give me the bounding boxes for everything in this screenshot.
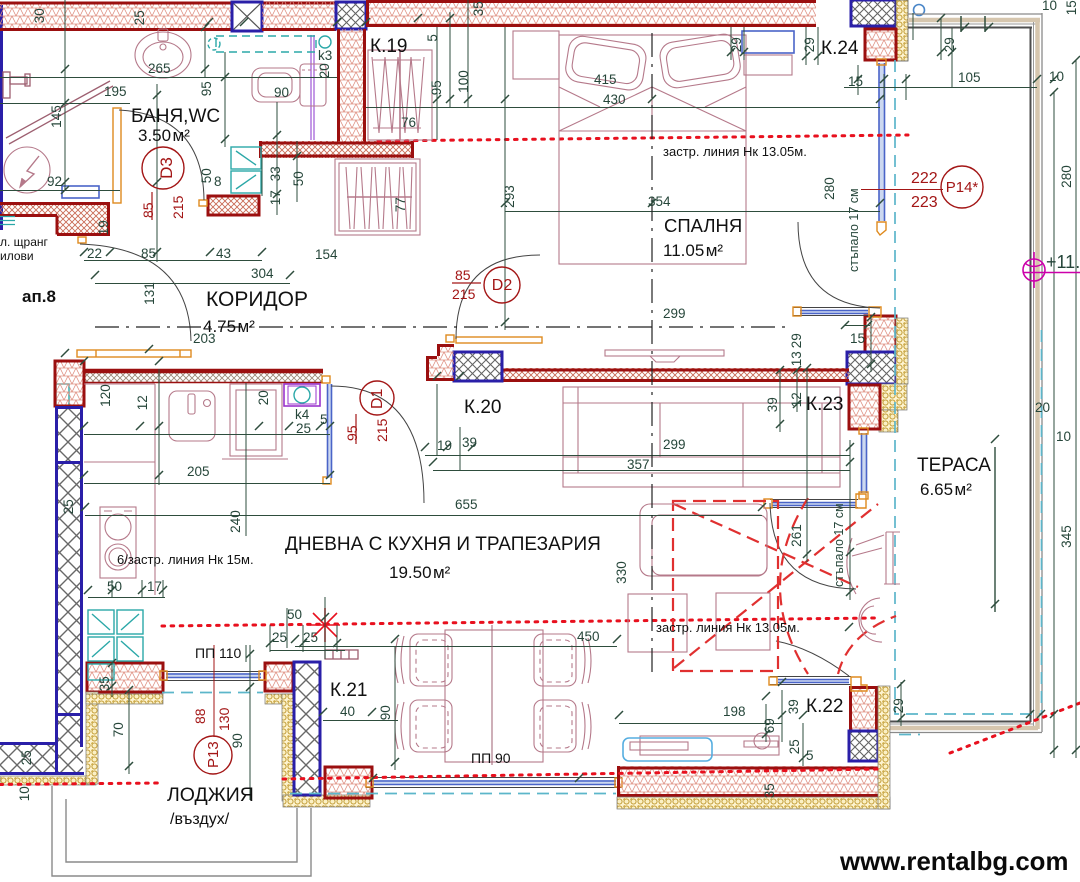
svg-text:33: 33 bbox=[268, 166, 283, 181]
bathroom diagonal partition bbox=[6, 81, 113, 144]
svg-text:90: 90 bbox=[274, 85, 289, 100]
chair bottom-right bbox=[534, 700, 591, 752]
svg-text:15: 15 bbox=[850, 331, 865, 346]
K23 cluster: upper wall block bbox=[865, 316, 896, 352]
svg-text:ДНЕВНА С КУХНЯ И ТРАПЕЗАРИЯ: ДНЕВНА С КУХНЯ И ТРАПЕЗАРИЯ bbox=[285, 534, 601, 555]
left exterior wall (navy w/ crosshatch) bbox=[0, 406, 84, 774]
wall block left end kitchen bbox=[55, 361, 84, 406]
corridor axis dash-dot bbox=[95, 326, 790, 328]
svg-text:D1: D1 bbox=[369, 388, 386, 409]
svg-text:95: 95 bbox=[344, 425, 360, 441]
left shaft navy edge line bbox=[0, 5, 3, 230]
exterior top wall band (bedroom) bbox=[366, 0, 816, 27]
svg-text:ап.8: ап.8 bbox=[22, 287, 56, 306]
svg-text:100: 100 bbox=[456, 70, 471, 93]
side table 2 bbox=[716, 593, 770, 650]
svg-text:+11.: +11. bbox=[1046, 252, 1080, 272]
door circle P14 bbox=[911, 166, 983, 211]
column K top-left (navy X box) bbox=[232, 2, 262, 31]
south window living room bbox=[366, 778, 622, 788]
svg-text:20: 20 bbox=[317, 63, 332, 78]
svg-text:К.19: К.19 bbox=[370, 36, 407, 57]
svg-text:215: 215 bbox=[374, 418, 390, 442]
corridor wardrobe shelf (orange) bbox=[77, 350, 191, 357]
cyan dashed terrace right bbox=[1041, 330, 1043, 714]
kitchen sink 173 bbox=[169, 391, 215, 441]
svg-text:k4: k4 bbox=[295, 407, 310, 422]
red building line (bottom right diagonal) bbox=[950, 703, 1080, 753]
svg-text:40: 40 bbox=[340, 704, 355, 719]
svg-text:19: 19 bbox=[437, 438, 452, 453]
D2 swing arc bbox=[456, 255, 540, 339]
svg-text:35: 35 bbox=[97, 676, 112, 691]
svg-text:10: 10 bbox=[1042, 0, 1057, 13]
cyan dashed bits right of K22 bbox=[690, 486, 920, 735]
svg-text:25: 25 bbox=[303, 630, 318, 645]
svg-text:15: 15 bbox=[848, 74, 863, 89]
svg-text:50: 50 bbox=[199, 168, 214, 183]
svg-text:илови: илови bbox=[0, 249, 34, 263]
svg-text:k3: k3 bbox=[318, 48, 332, 63]
D1 swing arc bbox=[331, 386, 424, 503]
svg-text:198: 198 bbox=[723, 704, 746, 719]
corridor wall step block (right of entrance) bbox=[208, 196, 259, 215]
insulation under SE wall bbox=[617, 797, 890, 809]
D3 door leaf bbox=[113, 108, 121, 203]
svg-text:/въздух/: /въздух/ bbox=[170, 811, 230, 828]
svg-text:655: 655 bbox=[455, 497, 478, 512]
svg-text:25: 25 bbox=[61, 499, 76, 514]
svg-text:330: 330 bbox=[614, 561, 629, 584]
svg-text:85: 85 bbox=[455, 267, 471, 283]
svg-text:20: 20 bbox=[1035, 400, 1050, 415]
svg-text:304: 304 bbox=[251, 266, 274, 281]
svg-text:13: 13 bbox=[789, 351, 804, 366]
svg-text:30: 30 bbox=[32, 8, 47, 23]
svg-text:354: 354 bbox=[648, 194, 671, 209]
svg-text:357: 357 bbox=[627, 457, 650, 472]
svg-text:240: 240 bbox=[228, 510, 243, 533]
loggia top-left wall block bbox=[87, 663, 163, 692]
D1 door jamb top bbox=[322, 376, 330, 383]
svg-text:450: 450 bbox=[577, 629, 600, 644]
svg-text:8: 8 bbox=[214, 174, 222, 189]
svg-text:35: 35 bbox=[471, 1, 486, 16]
stove bbox=[100, 507, 136, 578]
svg-text:261: 261 bbox=[789, 524, 804, 547]
entrance wall left (bathroom south) bbox=[0, 202, 110, 236]
svg-text:88: 88 bbox=[192, 708, 208, 724]
exterior top wall band (bathroom) bbox=[0, 2, 336, 31]
svg-text:БАНЯ,WC: БАНЯ,WC bbox=[131, 106, 220, 127]
door circle D3 bbox=[140, 147, 186, 220]
fridge bbox=[222, 384, 288, 459]
svg-text:КОРИДОР: КОРИДОР bbox=[206, 288, 308, 311]
svg-text:6.65 м²: 6.65 м² bbox=[920, 480, 972, 499]
wall under toilet room (bath-corridor) bbox=[259, 141, 414, 158]
svg-text:223: 223 bbox=[911, 194, 938, 211]
bedroom south wall band (sofa wall) bbox=[502, 368, 849, 382]
svg-text:20: 20 bbox=[256, 390, 271, 405]
toilet bbox=[252, 64, 326, 106]
svg-text:50: 50 bbox=[291, 171, 306, 186]
svg-text:25: 25 bbox=[19, 750, 34, 765]
svg-text:195: 195 bbox=[104, 84, 127, 99]
svg-text:К.24: К.24 bbox=[821, 38, 859, 59]
svg-text:215: 215 bbox=[170, 195, 186, 219]
K23 lower wall block bbox=[849, 385, 880, 429]
magenta level mark bbox=[1023, 252, 1080, 288]
column K21 (navy crosshatch) bbox=[294, 662, 320, 795]
loggia parapet outline bbox=[52, 786, 311, 876]
svg-text:120: 120 bbox=[98, 384, 113, 407]
window PP110 (loggia) bbox=[160, 671, 266, 681]
k4 sink box (purple) bbox=[284, 384, 320, 406]
K19 wardrobe with hangers bbox=[368, 50, 432, 140]
svg-text:203: 203 bbox=[193, 331, 216, 346]
svg-text:застр. линия Нк 13.05м.: застр. линия Нк 13.05м. bbox=[663, 144, 807, 159]
D3 door jamb orange bbox=[199, 200, 207, 206]
insulation strip right of K24 bbox=[896, 0, 908, 61]
K22 wall column bbox=[849, 686, 878, 731]
svg-text:К.23: К.23 bbox=[806, 394, 843, 415]
svg-text:3.50 м²: 3.50 м² bbox=[138, 126, 190, 145]
door circle D1 bbox=[344, 381, 394, 444]
svg-text:95: 95 bbox=[199, 81, 214, 96]
chair top-left bbox=[395, 634, 452, 686]
door circle P13 bbox=[192, 707, 232, 774]
side table 1 bbox=[628, 594, 687, 652]
svg-text:215: 215 bbox=[452, 286, 476, 302]
svg-text:19: 19 bbox=[96, 220, 111, 235]
blue bench bathroom bbox=[62, 186, 99, 198]
entrance door jamb piece bbox=[78, 237, 86, 243]
terrace chair / plant bbox=[847, 532, 900, 642]
svg-text:6/застр. линия Нк 15м.: 6/застр. линия Нк 15м. bbox=[117, 552, 254, 567]
chair bottom-left bbox=[395, 700, 452, 752]
svg-text:265: 265 bbox=[148, 61, 171, 76]
column K24 (navy crosshatch box) bbox=[851, 0, 896, 26]
lower closet with slats bbox=[335, 159, 420, 235]
living-terrace door (horizontal) bbox=[764, 494, 866, 508]
svg-text:5: 5 bbox=[320, 412, 328, 427]
svg-text:29: 29 bbox=[729, 37, 744, 52]
svg-text:D3: D3 bbox=[157, 157, 176, 179]
cyan dashed line terrace (L-shape) bbox=[895, 60, 1041, 714]
cyan cabinet (toilet room) bbox=[231, 147, 261, 193]
insulation under left wall corner bbox=[0, 776, 96, 785]
svg-text:90: 90 bbox=[230, 733, 245, 748]
small cyan circle terrace top bbox=[914, 5, 925, 16]
svg-text:70: 70 bbox=[111, 722, 126, 737]
svg-text:www.rentalbg.com: www.rentalbg.com bbox=[839, 848, 1068, 876]
svg-text:10: 10 bbox=[17, 786, 32, 801]
K22 east insulation bbox=[878, 686, 890, 809]
svg-text:415: 415 bbox=[594, 72, 617, 87]
svg-text:К.22: К.22 bbox=[806, 696, 843, 717]
svg-text:стъпало 17 см: стъпало 17 см bbox=[832, 503, 846, 587]
svg-text:К.20: К.20 bbox=[464, 397, 501, 418]
svg-text:29: 29 bbox=[942, 37, 957, 52]
svg-text:29: 29 bbox=[789, 333, 804, 348]
dining table bbox=[445, 630, 543, 762]
nightstand left bbox=[513, 31, 559, 79]
terrace outer wall (bottom) bbox=[890, 722, 1042, 733]
chair top-right bbox=[534, 634, 591, 686]
svg-text:222: 222 bbox=[911, 170, 938, 187]
terrace outer wall (right) bbox=[1031, 13, 1043, 732]
K20 navy box bbox=[454, 352, 502, 381]
D1 door jamb bottom bbox=[323, 477, 331, 484]
svg-text:131: 131 bbox=[142, 282, 157, 305]
svg-text:11.05 м²: 11.05 м² bbox=[663, 241, 723, 260]
vent grille strip near K21 bbox=[325, 650, 358, 659]
svg-text:P14*: P14* bbox=[946, 179, 979, 196]
svg-text:СПАЛНЯ: СПАЛНЯ bbox=[664, 215, 742, 236]
svg-text:293: 293 bbox=[502, 185, 517, 208]
purple shower partition (toilet) bbox=[311, 35, 314, 140]
svg-text:69: 69 bbox=[762, 718, 777, 733]
bedroom terrace door swing arc bbox=[798, 222, 880, 308]
svg-text:12: 12 bbox=[135, 395, 150, 410]
wall block right of K21 bbox=[325, 767, 372, 798]
svg-text:ПП 90: ПП 90 bbox=[471, 750, 511, 766]
svg-text:90: 90 bbox=[378, 705, 393, 720]
svg-text:29: 29 bbox=[891, 698, 906, 713]
TV on bedroom wall bbox=[605, 350, 724, 362]
window right of sofa wall (vertical) bbox=[859, 428, 868, 499]
bedroom/living axis dash-dot vertical bbox=[651, 33, 653, 678]
bedroom west wall step blocks bbox=[426, 344, 454, 381]
svg-text:ТЕРАСА: ТЕРАСА bbox=[917, 455, 991, 476]
svg-text:280: 280 bbox=[1059, 165, 1074, 188]
wall between toilet and K19 (hatched) bbox=[337, 29, 366, 142]
SE window swing arc bbox=[776, 641, 849, 676]
svg-text:стъпало 17 см: стъпало 17 см bbox=[847, 188, 861, 272]
svg-text:105: 105 bbox=[958, 70, 981, 85]
svg-text:л. щранг: л. щранг bbox=[0, 235, 49, 249]
D1 door leaf (blue) bbox=[327, 384, 332, 478]
door circle D2 bbox=[452, 267, 520, 303]
living terrace door swing arc bbox=[770, 503, 856, 589]
svg-text:280: 280 bbox=[822, 177, 837, 200]
terrace outer wall (top) bbox=[908, 14, 1042, 28]
svg-text:19.50 м²: 19.50 м² bbox=[389, 563, 451, 582]
svg-text:5: 5 bbox=[425, 34, 440, 42]
svg-text:25: 25 bbox=[787, 739, 802, 754]
svg-text:25: 25 bbox=[272, 630, 287, 645]
red dashed armchair square bbox=[673, 501, 778, 671]
cyan dashed sill under south window bbox=[290, 793, 616, 795]
K23 navy box bbox=[847, 352, 896, 384]
svg-text:12: 12 bbox=[789, 392, 804, 407]
svg-text:205: 205 bbox=[187, 464, 210, 479]
svg-text:25: 25 bbox=[132, 10, 147, 25]
red dashed swing arc (project door) bbox=[780, 498, 808, 674]
svg-text:P13: P13 bbox=[205, 741, 222, 768]
svg-text:D2: D2 bbox=[492, 277, 513, 294]
D2 door leaf bbox=[456, 337, 542, 343]
svg-text:154: 154 bbox=[315, 247, 338, 262]
D2 door jamb bbox=[446, 335, 454, 342]
D3 swing arc bbox=[119, 110, 204, 200]
K23 insulation strips bbox=[879, 318, 908, 432]
sofa bbox=[563, 387, 840, 487]
red building line (bedroom) bbox=[378, 135, 908, 141]
svg-text:43: 43 bbox=[216, 246, 231, 261]
cyan dashed sill under PP110 bbox=[162, 692, 263, 694]
svg-text:430: 430 bbox=[603, 92, 626, 107]
shower symbol circle with arrow bbox=[4, 147, 50, 193]
svg-text:5: 5 bbox=[806, 748, 814, 763]
bedroom terrace window/door (east) bbox=[877, 59, 886, 235]
red star marker (as-built point) bbox=[310, 608, 340, 642]
red dashed small arc near SE window bbox=[838, 616, 896, 674]
nightstand right (blue) bbox=[742, 31, 794, 75]
red dashed diagonals bbox=[674, 504, 878, 668]
bedroom SE window (horizontal) bbox=[793, 307, 881, 317]
svg-text:299: 299 bbox=[663, 306, 686, 321]
svg-text:145: 145 bbox=[49, 105, 64, 128]
svg-text:25: 25 bbox=[296, 421, 311, 436]
svg-text:17: 17 bbox=[147, 579, 162, 594]
red building line (living) bbox=[162, 618, 875, 626]
svg-text:50: 50 bbox=[107, 579, 122, 594]
svg-text:39: 39 bbox=[462, 435, 477, 450]
svg-text:77: 77 bbox=[393, 197, 408, 212]
top wall band over toilet bbox=[262, 2, 336, 31]
svg-text:85: 85 bbox=[140, 202, 156, 218]
armchair chaise bbox=[640, 504, 767, 576]
bed bbox=[559, 32, 746, 264]
svg-text:39: 39 bbox=[765, 397, 780, 412]
cyan corner cabinet kitchen bbox=[56, 384, 69, 406]
window SE (right of living) bbox=[769, 677, 867, 692]
red building line (south) bbox=[0, 769, 880, 785]
svg-text:К.21: К.21 bbox=[330, 680, 367, 701]
TV cabinet (living bottom) bbox=[623, 733, 779, 761]
svg-text:345: 345 bbox=[1059, 525, 1074, 548]
cyan dashed shower zone (toilet room) bbox=[208, 36, 331, 52]
loggia insulation walls (khaki dotted) bbox=[86, 692, 370, 807]
svg-text:85: 85 bbox=[141, 246, 156, 261]
kitchen-corridor wall band bbox=[84, 369, 323, 383]
svg-text:35: 35 bbox=[762, 783, 777, 798]
svg-text:76: 76 bbox=[401, 115, 416, 130]
cyan base cabinet kitchen bbox=[88, 610, 143, 680]
svg-text:ЛОДЖИЯ: ЛОДЖИЯ bbox=[167, 784, 254, 806]
svg-text:10: 10 bbox=[1056, 429, 1071, 444]
svg-text:50: 50 bbox=[287, 607, 302, 622]
bathroom sink bbox=[135, 29, 191, 78]
svg-text:застр. линия Нк 13.05м.: застр. линия Нк 13.05м. bbox=[656, 620, 800, 635]
svg-text:15: 15 bbox=[1064, 0, 1079, 15]
column at K19 top (navy crosshatch box) bbox=[336, 2, 366, 29]
K22 navy box bbox=[849, 731, 878, 761]
south-east wall band bbox=[617, 766, 878, 797]
svg-text:95: 95 bbox=[429, 80, 444, 95]
svg-text:22: 22 bbox=[87, 246, 102, 261]
svg-text:10: 10 bbox=[1049, 69, 1064, 84]
shaft pipes left edge bbox=[0, 217, 15, 225]
svg-text:17: 17 bbox=[268, 190, 283, 205]
svg-text:29: 29 bbox=[802, 37, 817, 52]
radiator symbol (top-left) bbox=[3, 72, 30, 98]
svg-text:130: 130 bbox=[216, 707, 232, 731]
wall block below K24 bbox=[865, 29, 896, 60]
svg-text:299: 299 bbox=[663, 437, 686, 452]
svg-text:39: 39 bbox=[786, 699, 801, 714]
loggia top-right wall block bbox=[265, 663, 293, 691]
svg-text:ПП 110: ПП 110 bbox=[195, 645, 242, 661]
svg-text:92: 92 bbox=[47, 174, 62, 189]
entrance door swing arc bbox=[80, 244, 191, 341]
kitchen counter line bbox=[84, 384, 155, 595]
